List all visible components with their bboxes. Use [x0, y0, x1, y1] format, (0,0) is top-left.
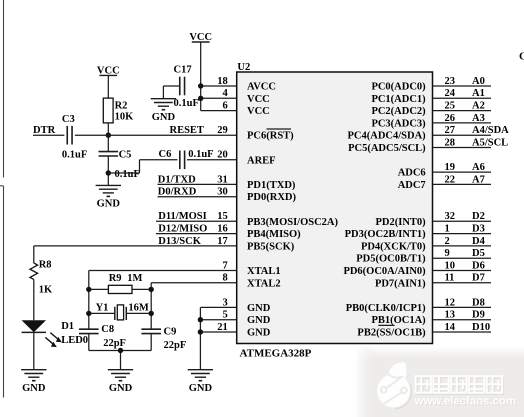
- svg-text:17: 17: [217, 236, 228, 247]
- ground (LED): [21, 370, 46, 394]
- watermark elecfans logo: [355, 346, 524, 417]
- node: [149, 287, 154, 292]
- svg-text:D5: D5: [472, 248, 485, 259]
- svg-text:AVCC: AVCC: [247, 82, 276, 93]
- pin 30 label PD0(RXD): [217, 187, 296, 204]
- svg-text:AREF: AREF: [247, 155, 276, 166]
- svg-text:16: 16: [217, 224, 228, 235]
- pin 31 label PD1(TXD): [217, 174, 296, 191]
- svg-text:PD3(OC2B/INT1): PD3(OC2B/INT1): [345, 229, 427, 240]
- svg-text:C0: C0: [519, 50, 524, 62]
- node: [198, 83, 203, 88]
- svg-text:D3: D3: [472, 224, 485, 235]
- wire: [107, 135, 109, 151]
- svg-text:GND: GND: [97, 199, 121, 210]
- svg-text:GND: GND: [247, 315, 271, 326]
- svg-text:PD7(AIN1): PD7(AIN1): [375, 278, 426, 289]
- svg-text:30: 30: [217, 187, 228, 198]
- capacitor C9: [141, 326, 186, 351]
- svg-text:20: 20: [217, 150, 228, 161]
- svg-text:23: 23: [445, 76, 456, 87]
- svg-text:6: 6: [222, 101, 227, 112]
- svg-text:PB3(MOSI/OSC2A): PB3(MOSI/OSC2A): [247, 217, 339, 228]
- svg-text:26: 26: [445, 113, 456, 124]
- LED D1: [22, 320, 88, 347]
- svg-text:31: 31: [217, 174, 228, 185]
- wire AREF jog: [108, 160, 177, 173]
- svg-text:8: 8: [222, 273, 227, 284]
- svg-text:0.1uF: 0.1uF: [188, 149, 213, 160]
- pin 12 PB0(CLK0/ICP1) net D8: [346, 297, 491, 314]
- svg-text:12: 12: [445, 297, 456, 308]
- svg-text:D0/RXD: D0/RXD: [158, 187, 197, 198]
- svg-text:9: 9: [445, 248, 450, 259]
- svg-text:XTAL1: XTAL1: [247, 266, 281, 277]
- svg-text:R2: R2: [115, 101, 128, 112]
- svg-text:R9: R9: [109, 273, 122, 284]
- ground (U2): [188, 370, 213, 394]
- svg-text:16M: 16M: [128, 302, 149, 313]
- node: [118, 348, 123, 353]
- watermark url: [414, 396, 518, 409]
- svg-text:R8: R8: [39, 259, 52, 270]
- pin 26 PC3(ADC3) net A3: [371, 113, 491, 130]
- svg-text:GND: GND: [109, 383, 133, 394]
- resistor R8: [30, 259, 53, 295]
- svg-text:PB0(CLK0/ICP1): PB0(CLK0/ICP1): [346, 303, 426, 314]
- pin 21 label GND: [217, 322, 271, 339]
- pin 23 PC0(ADC0) net A0: [371, 76, 491, 93]
- svg-text:VCC: VCC: [247, 106, 270, 117]
- svg-text:1M: 1M: [127, 273, 142, 284]
- svg-text:32: 32: [445, 211, 456, 222]
- svg-text:0.1uF: 0.1uF: [174, 98, 199, 109]
- svg-text:C6: C6: [159, 149, 172, 160]
- capacitor C17: [174, 64, 199, 109]
- node RESET junction: [106, 133, 111, 138]
- svg-text:XTAL2: XTAL2: [247, 278, 281, 289]
- resistor R9: [89, 273, 151, 294]
- svg-text:27: 27: [445, 125, 456, 136]
- svg-text:PB4(MISO): PB4(MISO): [247, 229, 301, 240]
- svg-text:A7: A7: [472, 174, 485, 185]
- svg-text:0.1uF: 0.1uF: [62, 149, 87, 160]
- svg-text:C3: C3: [62, 114, 75, 125]
- pin 6 label VCC: [222, 101, 269, 118]
- svg-text:3: 3: [222, 297, 227, 308]
- pin 10 PD6(OC0A/AIN0) net D6: [343, 260, 491, 277]
- svg-text:GND: GND: [152, 112, 176, 123]
- svg-text:7: 7: [222, 260, 227, 271]
- svg-text:18: 18: [217, 76, 228, 87]
- wire GND rail: [200, 307, 236, 369]
- pin 29 label PC6(RST): [217, 125, 294, 142]
- svg-text:D6: D6: [472, 260, 485, 271]
- capacitor C6: [159, 149, 214, 169]
- node: [86, 311, 91, 316]
- svg-text:C5: C5: [119, 149, 132, 160]
- svg-text:22pF: 22pF: [164, 340, 187, 351]
- pin 17 label PB5(SCK): [217, 236, 295, 253]
- svg-text:29: 29: [217, 125, 228, 136]
- svg-text:U2: U2: [237, 62, 250, 73]
- svg-text:A1: A1: [472, 88, 485, 99]
- capacitor C5: [99, 149, 140, 180]
- svg-text:D10: D10: [472, 322, 490, 333]
- svg-text:D1/TXD: D1/TXD: [158, 174, 196, 185]
- svg-text:RESET: RESET: [170, 125, 204, 136]
- pin 16 label PB4(MISO): [217, 224, 301, 241]
- svg-text:1: 1: [445, 224, 450, 235]
- node: [198, 96, 203, 101]
- node AREF tap: [106, 170, 111, 175]
- svg-text:PC6(RST): PC6(RST): [247, 131, 294, 142]
- svg-text:A5/SCL: A5/SCL: [472, 137, 508, 148]
- pin 28 PC5(ADC5/SCL) net A5/SCL: [348, 137, 508, 154]
- wire: [107, 123, 109, 135]
- svg-text:11: 11: [445, 273, 455, 284]
- svg-text:D13/SCK: D13/SCK: [158, 236, 201, 247]
- pin 2 PD4(XCK/T0) net D4: [361, 236, 491, 253]
- pin 25 PC2(ADC2) net A2: [371, 101, 491, 118]
- svg-text:4: 4: [222, 88, 228, 99]
- svg-text:C17: C17: [174, 64, 192, 75]
- svg-text:GND: GND: [247, 303, 271, 314]
- svg-text:C8: C8: [101, 324, 114, 335]
- wire: [33, 279, 35, 320]
- svg-text:ATMEGA328P: ATMEGA328P: [240, 347, 312, 359]
- svg-text:Y1: Y1: [96, 302, 109, 313]
- pin 22 ADC7 net A7: [398, 174, 491, 191]
- svg-text:VCC: VCC: [247, 94, 270, 105]
- svg-text:D7: D7: [472, 273, 485, 284]
- svg-text:A0: A0: [472, 76, 485, 87]
- pin 8 label XTAL2: [222, 273, 280, 290]
- pin 3 label GND: [222, 297, 270, 314]
- wire D13/SCK: [34, 245, 237, 247]
- svg-text:GND: GND: [22, 383, 46, 394]
- svg-text:PC2(ADC2): PC2(ADC2): [371, 106, 426, 117]
- svg-text:1K: 1K: [39, 285, 53, 296]
- svg-text:D8: D8: [472, 297, 485, 308]
- pin 15 label PB3(MOSI/OSC2A): [217, 211, 338, 228]
- svg-text:PB2(SS/OC1B): PB2(SS/OC1B): [357, 328, 426, 339]
- svg-text:PC4(ADC4/SDA): PC4(ADC4/SDA): [348, 131, 427, 142]
- pin 24 PC1(ADC1) net A1: [371, 88, 491, 105]
- svg-text:28: 28: [445, 137, 456, 148]
- wire: [163, 86, 179, 99]
- svg-text:A2: A2: [472, 101, 485, 112]
- svg-text:GND: GND: [247, 328, 271, 339]
- svg-text:5: 5: [222, 310, 227, 321]
- wire XTAL1: [89, 271, 237, 330]
- wire XTAL2: [151, 283, 237, 329]
- svg-text:PD2(INT0): PD2(INT0): [376, 217, 427, 228]
- crystal Y1: [89, 302, 151, 320]
- node: [198, 329, 203, 334]
- capacitor C8: [79, 324, 126, 349]
- wire D11/MOSI: [156, 220, 237, 222]
- svg-text:PC0(ADC0): PC0(ADC0): [371, 82, 426, 93]
- svg-text:22pF: 22pF: [103, 338, 126, 349]
- pin 7 label XTAL1: [222, 260, 280, 277]
- wire: [33, 134, 64, 136]
- svg-text:25: 25: [445, 101, 456, 112]
- svg-text:21: 21: [217, 322, 228, 333]
- svg-text:PB1(OC1A): PB1(OC1A): [371, 315, 426, 326]
- svg-text:A6: A6: [472, 162, 485, 173]
- wire AREF to pin 20: [187, 159, 237, 161]
- capacitor C3: [62, 114, 87, 160]
- svg-text:PD4(XCK/T0): PD4(XCK/T0): [361, 241, 426, 252]
- pin 1 PD3(OC2B/INT1) net D3: [345, 224, 491, 241]
- svg-text:14: 14: [445, 322, 456, 333]
- wire D1/TXD: [158, 183, 237, 185]
- svg-text:22: 22: [445, 174, 456, 185]
- wire: [89, 334, 151, 370]
- pin 11 PD7(AIN1) net D7: [375, 273, 491, 290]
- pin 27 PC4(ADC4/SDA) net A4/SDA: [348, 125, 510, 142]
- wire: [33, 246, 35, 263]
- pin 4 label VCC: [222, 88, 269, 105]
- watermark chinese text: [416, 376, 504, 394]
- svg-text:D12/MISO: D12/MISO: [158, 224, 207, 235]
- svg-text:A3: A3: [472, 113, 485, 124]
- pin 14 PB2(SS/OC1B) net D10: [357, 322, 491, 339]
- wire D12/MISO: [156, 233, 237, 235]
- svg-text:PD5(OC0B/T1): PD5(OC0B/T1): [356, 254, 426, 265]
- svg-text:C9: C9: [164, 326, 177, 337]
- ground (crystal): [108, 370, 133, 394]
- resistor R2: [103, 98, 134, 123]
- pin 32 PD2(INT0) net D2: [376, 211, 491, 228]
- ground (C5): [96, 185, 121, 209]
- op-amp U1 substitute: microcontroller U2 ATMEGA328P body: [237, 62, 433, 359]
- node: [198, 317, 203, 322]
- svg-text:DTR: DTR: [33, 125, 56, 136]
- svg-text:GND: GND: [189, 383, 213, 394]
- node: [149, 311, 154, 316]
- svg-text:ADC7: ADC7: [398, 180, 426, 191]
- pin 18 label AVCC: [217, 76, 276, 93]
- svg-text:LED0: LED0: [61, 335, 88, 346]
- svg-text:D11/MOSI: D11/MOSI: [158, 211, 206, 222]
- svg-text:24: 24: [445, 88, 456, 99]
- pin 13 PB1(OC1A) net D9: [371, 310, 491, 327]
- svg-text:D1: D1: [61, 321, 74, 332]
- ground (C17): [151, 99, 176, 123]
- pin 5 label GND: [222, 310, 270, 327]
- svg-text:A4/SDA: A4/SDA: [472, 125, 509, 136]
- wire: [107, 156, 109, 185]
- svg-text:PC1(ADC1): PC1(ADC1): [371, 94, 426, 105]
- pin 19 ADC6 net A6: [398, 162, 491, 179]
- svg-text:10K: 10K: [115, 112, 135, 123]
- svg-text:D9: D9: [472, 310, 485, 321]
- power VCC (R2 pull-up): [97, 66, 120, 77]
- svg-text:www.elecfans.com: www.elecfans.com: [414, 396, 517, 408]
- overline SS: [378, 324, 394, 326]
- svg-text:PB5(SCK): PB5(SCK): [247, 241, 295, 252]
- wire RESET net: [75, 134, 237, 136]
- wire D0/RXD: [158, 196, 237, 198]
- svg-text:0.1uF: 0.1uF: [115, 169, 140, 180]
- svg-text:15: 15: [217, 211, 228, 222]
- svg-text:10: 10: [445, 260, 456, 271]
- pin 20 label AREF: [217, 150, 275, 167]
- pin 9 PD5(OC0B/T1) net D5: [356, 248, 491, 265]
- svg-text:19: 19: [445, 162, 456, 173]
- wire VCC rail: [201, 42, 237, 111]
- svg-text:PD1(TXD): PD1(TXD): [247, 180, 296, 191]
- svg-text:PC5(ADC5/SCL): PC5(ADC5/SCL): [348, 143, 426, 154]
- svg-text:PD0(RXD): PD0(RXD): [247, 192, 296, 203]
- svg-text:2: 2: [445, 236, 450, 247]
- svg-text:PC3(ADC3): PC3(ADC3): [371, 118, 426, 129]
- svg-text:ADC6: ADC6: [398, 168, 426, 179]
- power VCC (IC supply): [189, 32, 212, 43]
- wire: [107, 75, 109, 98]
- svg-text:PD6(OC0A/AIN0): PD6(OC0A/AIN0): [343, 266, 426, 277]
- svg-text:D2: D2: [472, 211, 485, 222]
- wire: [33, 332, 35, 369]
- svg-text:13: 13: [445, 310, 456, 321]
- node: [86, 287, 91, 292]
- svg-text:D4: D4: [472, 236, 486, 247]
